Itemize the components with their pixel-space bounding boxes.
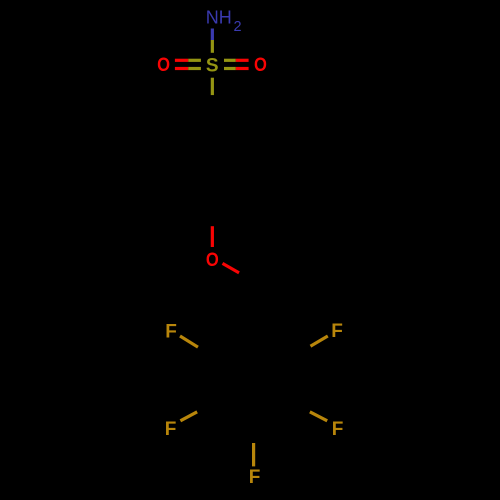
- svg-text:NH: NH: [206, 7, 232, 27]
- svg-text:O: O: [206, 250, 219, 271]
- double bond S1=O1 (left): [175, 60, 201, 68]
- bond C6'-F6 (gold half visible): [294, 336, 328, 356]
- svg-text:F: F: [331, 321, 343, 342]
- bond S1-C1 (olive half visible, carbon half black): [211, 78, 214, 112]
- benzene ring 2 (black, invisible on black bg): [213, 331, 295, 426]
- bond N1-S1: [211, 29, 214, 53]
- svg-text:O: O: [157, 55, 170, 76]
- bond C5'-F5 (gold half visible): [293, 403, 327, 421]
- svg-text:S: S: [206, 56, 219, 77]
- bond O3-CH2 (red half visible): [223, 263, 256, 282]
- atom label NH2 (N of sulfonamide): [206, 7, 242, 35]
- bond C4'-F4 (gold half visible): [252, 426, 255, 467]
- bond C4-O3 (ether, red half visible): [211, 206, 214, 247]
- svg-text:F: F: [165, 419, 177, 440]
- benzene ring 1 (black, invisible on black bg): [172, 112, 254, 206]
- svg-text:F: F: [332, 419, 344, 440]
- bond CH2-C1' (black): [254, 282, 256, 330]
- bond C2'-F2 (gold half visible): [180, 336, 214, 357]
- svg-text:F: F: [249, 467, 261, 488]
- svg-text:F: F: [165, 321, 177, 342]
- svg-text:2: 2: [234, 19, 242, 35]
- svg-text:O: O: [254, 55, 267, 76]
- double bond S1=O2 (right): [224, 60, 249, 68]
- bond C3'-F3 (gold half visible): [180, 403, 214, 421]
